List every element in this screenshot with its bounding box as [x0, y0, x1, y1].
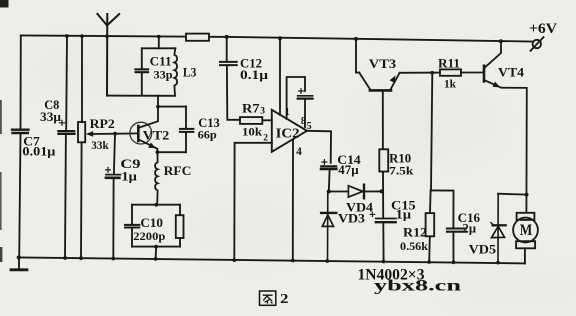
svg-text:3: 3	[260, 106, 265, 116]
capacitor C10	[125, 225, 139, 228]
svg-text:L3: L3	[183, 65, 197, 80]
svg-text:RFC: RFC	[164, 163, 192, 178]
svg-text:VD3: VD3	[338, 210, 366, 225]
resistor R11	[440, 69, 483, 75]
svg-text:2: 2	[263, 134, 268, 144]
scan artifacts left edge	[0, 0, 9, 262]
wire pin4	[292, 140, 294, 261]
wire pin8 bracket	[287, 77, 305, 119]
svg-text:VT2: VT2	[143, 128, 169, 143]
wire tank stub	[158, 37, 160, 49]
transistor VT2	[130, 96, 158, 153]
capacitor C13	[180, 107, 193, 153]
svg-text:1k: 1k	[444, 77, 456, 91]
transistor VT4	[484, 41, 527, 213]
svg-text:VD5: VD5	[469, 241, 497, 256]
motor M	[513, 213, 538, 264]
capacitor C9	[106, 168, 121, 178]
svg-text:1μ: 1μ	[396, 208, 411, 222]
wire left rail	[19, 36, 21, 258]
svg-text:47μ: 47μ	[338, 163, 358, 177]
antenna	[97, 14, 119, 96]
svg-text:2μ: 2μ	[463, 221, 477, 235]
svg-text:0.56k: 0.56k	[400, 239, 428, 253]
resistor R-top unlabeled	[186, 34, 209, 41]
terminal +6V	[531, 37, 544, 51]
svg-text:0.1μ: 0.1μ	[240, 68, 268, 82]
svg-text:RP2: RP2	[90, 116, 115, 131]
svg-text:33k: 33k	[91, 138, 109, 152]
diode VD5	[491, 194, 527, 263]
svg-text:33μ: 33μ	[40, 110, 61, 124]
wire VT3 emitter to R11	[400, 72, 440, 74]
tank box C11/L3	[107, 48, 175, 96]
inductor L3	[174, 48, 177, 95]
svg-text:0.01μ: 0.01μ	[22, 144, 55, 158]
wire IC2 output	[307, 131, 331, 163]
wire C12 branch	[227, 37, 240, 120]
resistor R10	[379, 149, 388, 171]
svg-text:+6V: +6V	[529, 21, 558, 37]
svg-text:10k: 10k	[242, 124, 262, 138]
svg-text:C11: C11	[150, 53, 172, 68]
wire C9 branch	[113, 134, 115, 259]
svg-text:7.5k: 7.5k	[389, 163, 414, 177]
capacitor C7	[12, 130, 29, 133]
resistor R12	[426, 213, 435, 236]
svg-text:5: 5	[307, 121, 312, 132]
ground	[11, 258, 27, 270]
wire C8 branch	[65, 36, 67, 258]
tank box C10	[132, 205, 184, 259]
svg-text:66p: 66p	[198, 127, 218, 141]
svg-text:ybx8.cn: ybx8.cn	[374, 278, 461, 295]
inductor RFC	[155, 152, 158, 205]
svg-text:R11: R11	[438, 56, 460, 71]
svg-text:VT4: VT4	[498, 65, 525, 80]
svg-text:1: 1	[285, 107, 290, 118]
svg-text:C10: C10	[140, 215, 163, 230]
wire pin2	[234, 143, 271, 260]
svg-text:33p: 33p	[154, 68, 173, 82]
capacitor C12	[220, 62, 237, 65]
svg-text:2: 2	[280, 292, 289, 307]
wire RP2 branch	[81, 36, 82, 258]
capacitor C-ic	[298, 89, 313, 127]
svg-text:R12: R12	[403, 224, 427, 239]
svg-text:R7: R7	[242, 100, 260, 115]
capacitor C15	[370, 212, 396, 222]
wire C13 top	[158, 106, 186, 108]
wire C16 branch	[431, 190, 454, 262]
wire VT3 base / R10	[382, 92, 385, 262]
capacitor C11	[135, 69, 148, 72]
caption fig2 glyph	[260, 291, 276, 305]
op-amp IC2	[272, 110, 307, 152]
potentiometer RP2	[78, 122, 138, 142]
wire top rail	[21, 35, 532, 41]
svg-text:M: M	[520, 222, 533, 239]
diode VD3	[321, 192, 336, 262]
svg-text:VT3: VT3	[369, 56, 397, 71]
diode VD4	[348, 185, 364, 199]
resistor R7	[240, 117, 272, 124]
capacitor C8	[58, 120, 74, 133]
wire C13 bottom	[157, 151, 186, 153]
svg-text:IC2: IC2	[276, 127, 300, 142]
wire pin1	[279, 38, 281, 115]
capacitor C14	[321, 160, 336, 192]
svg-text:4: 4	[296, 146, 302, 158]
capacitor C16	[447, 229, 466, 232]
transistor VT3	[356, 39, 400, 91]
svg-text:2200p: 2200p	[133, 229, 165, 243]
svg-text:1μ: 1μ	[121, 170, 136, 184]
wire R12 branch	[429, 73, 432, 262]
svg-text:8: 8	[301, 116, 306, 127]
wire VD4 line	[329, 190, 383, 192]
wire bottom rail	[18, 257, 525, 263]
